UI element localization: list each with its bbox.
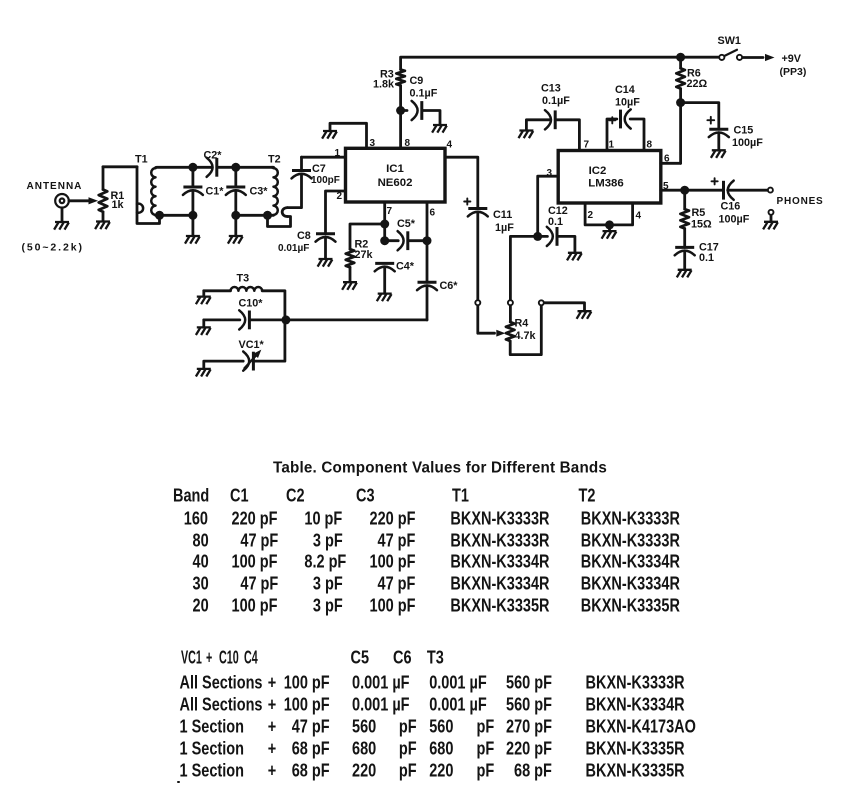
svg-text:1: 1 xyxy=(609,140,615,151)
svg-text:6: 6 xyxy=(664,154,670,165)
svg-text:5: 5 xyxy=(663,181,669,192)
svg-text:7: 7 xyxy=(387,206,393,217)
svg-text:100µF: 100µF xyxy=(732,137,763,149)
svg-text:C5*: C5* xyxy=(397,218,416,230)
svg-text:1: 1 xyxy=(335,148,341,159)
svg-text:C8: C8 xyxy=(297,230,311,242)
svg-text:C16: C16 xyxy=(721,200,741,212)
svg-text:C9: C9 xyxy=(410,75,424,87)
svg-text:7: 7 xyxy=(584,140,590,151)
svg-text:C15: C15 xyxy=(734,125,754,137)
svg-text:C3*: C3* xyxy=(250,186,269,198)
svg-text:PHONES: PHONES xyxy=(777,196,824,207)
svg-text:0.1: 0.1 xyxy=(699,252,714,264)
svg-text:2: 2 xyxy=(588,210,594,221)
svg-text:C13: C13 xyxy=(541,83,561,95)
svg-text:NE602: NE602 xyxy=(378,177,413,189)
svg-text:(50~2.2k): (50~2.2k) xyxy=(22,242,84,254)
svg-text:4: 4 xyxy=(447,140,453,151)
svg-text:100pF: 100pF xyxy=(311,175,340,186)
svg-text:C11: C11 xyxy=(493,209,512,221)
svg-text:2: 2 xyxy=(337,191,343,202)
svg-text:0.1µF: 0.1µF xyxy=(410,87,438,99)
svg-text:IC2: IC2 xyxy=(589,165,607,177)
svg-text:VC1*: VC1* xyxy=(239,339,265,351)
svg-text:T3: T3 xyxy=(237,273,250,285)
svg-text:4: 4 xyxy=(636,211,642,222)
svg-text:4.7k: 4.7k xyxy=(515,330,537,342)
svg-text:C10*: C10* xyxy=(239,298,264,310)
svg-text:ANTENNA: ANTENNA xyxy=(27,181,83,192)
svg-text:6: 6 xyxy=(430,208,436,219)
svg-text:LM386: LM386 xyxy=(588,178,623,190)
svg-text:R5: R5 xyxy=(692,207,706,219)
svg-text:C2*: C2* xyxy=(204,150,223,162)
svg-text:C6*: C6* xyxy=(440,280,459,292)
svg-text:IC1: IC1 xyxy=(386,163,404,175)
svg-text:SW1: SW1 xyxy=(718,35,741,47)
svg-text:1µF: 1µF xyxy=(495,222,514,234)
svg-text:+9V: +9V xyxy=(782,53,802,65)
svg-text:15Ω: 15Ω xyxy=(691,218,712,230)
svg-text:C14: C14 xyxy=(615,84,635,96)
svg-text:0.01µF: 0.01µF xyxy=(278,243,309,254)
svg-text:C1*: C1* xyxy=(206,186,225,198)
svg-text:C4*: C4* xyxy=(396,261,415,273)
svg-text:1.8k: 1.8k xyxy=(373,78,395,90)
svg-text:T2: T2 xyxy=(268,154,281,166)
svg-text:8: 8 xyxy=(405,138,411,149)
svg-text:22Ω: 22Ω xyxy=(687,78,708,90)
svg-text:0.1µF: 0.1µF xyxy=(542,95,570,107)
svg-text:R4: R4 xyxy=(515,318,529,330)
svg-text:3: 3 xyxy=(547,168,553,179)
svg-text:0.1: 0.1 xyxy=(548,216,563,228)
svg-text:27k: 27k xyxy=(355,249,374,261)
svg-text:100µF: 100µF xyxy=(719,213,750,225)
svg-text:C7: C7 xyxy=(312,163,326,175)
svg-text:T1: T1 xyxy=(135,154,148,166)
svg-text:10µF: 10µF xyxy=(615,96,640,108)
svg-text:(PP3): (PP3) xyxy=(780,66,807,78)
svg-text:8: 8 xyxy=(647,140,653,151)
svg-text:3: 3 xyxy=(370,138,376,149)
svg-text:1k: 1k xyxy=(112,199,125,211)
